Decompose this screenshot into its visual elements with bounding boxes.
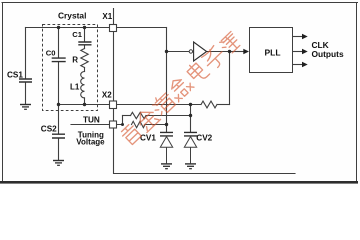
- frame top: [2, 2, 358, 4]
- wire vertical X1 internal node: [166, 28, 168, 133]
- wire top X1 net: [26, 27, 167, 29]
- pin X1: [110, 25, 117, 32]
- watermark: [120, 31, 242, 145]
- wire CS2 branch: [58, 105, 60, 134]
- arrowhead CLK out 2: [302, 49, 308, 54]
- wire L1 bottom: [84, 98, 86, 105]
- wire feedback vertical: [229, 52, 231, 105]
- arrowhead CLK out 3: [302, 62, 308, 67]
- ground CS2: [53, 160, 64, 162]
- arrowhead CLK out 1: [302, 34, 308, 39]
- wire TUN riser: [122, 116, 124, 125]
- varactor CV1 diode: [160, 137, 172, 164]
- pin X2: [110, 101, 117, 109]
- capacitor CS2: [52, 134, 65, 138]
- chip outline: [114, 9, 296, 174]
- wire R to L1: [84, 68, 86, 72]
- junction dot amp input: [165, 50, 168, 53]
- frame left: [2, 3, 4, 182]
- op-amp triangle: [194, 42, 207, 61]
- wire PLL input: [230, 51, 244, 53]
- crystal dashed box: [43, 25, 98, 111]
- svg-text:C0: C0: [46, 48, 56, 57]
- wire CS2 to ground: [58, 138, 60, 160]
- arrowhead PLL input: [243, 49, 249, 54]
- junction dot CV2 top: [189, 103, 192, 106]
- wire C1 to R: [84, 45, 86, 48]
- ground CS1: [20, 104, 31, 106]
- op-amp inverter bubble: [189, 50, 192, 53]
- frame right: [356, 3, 358, 182]
- wire C0 branch bottom: [58, 62, 60, 105]
- wire lower resistor right lead: [145, 124, 167, 126]
- svg-text:C1: C1: [72, 30, 82, 39]
- wire bottom X2 net: [59, 104, 202, 106]
- svg-text:X2: X2: [102, 90, 112, 99]
- ground CV1: [161, 163, 172, 165]
- svg-text:Crystal: Crystal: [58, 11, 86, 21]
- wire TUN stub: [71, 124, 123, 126]
- resistor R: [81, 49, 88, 68]
- wire CLK out 3: [293, 64, 303, 66]
- svg-text:L1: L1: [70, 82, 80, 91]
- junction dot top C0: [57, 26, 60, 29]
- svg-text:Outputs: Outputs: [312, 49, 344, 59]
- junction dot top C1: [83, 26, 86, 29]
- svg-text:PLL: PLL: [265, 47, 281, 57]
- svg-text:Voltage: Voltage: [76, 138, 105, 147]
- frame bottom bar: [0, 181, 358, 184]
- wire C1 top lead: [84, 28, 86, 42]
- varactor CV2 diode: [184, 137, 196, 164]
- wire upper resistor right lead: [146, 115, 191, 117]
- svg-text:CV1: CV1: [140, 134, 156, 143]
- inductor L1: [81, 72, 85, 98]
- wire vertical CV2 branch: [190, 105, 192, 133]
- svg-text:TUN: TUN: [83, 115, 100, 124]
- capacitor CS1: [19, 79, 32, 82]
- capacitor C1: [78, 42, 91, 45]
- svg-text:CV2: CV2: [196, 134, 212, 143]
- pin TUN: [110, 121, 117, 128]
- capacitor C0: [52, 58, 66, 62]
- junction dot TUN split: [121, 123, 124, 126]
- wire feedback to resistor: [217, 104, 230, 106]
- varactor CV1 plates: [160, 132, 173, 136]
- svg-text:CS2: CS2: [41, 124, 57, 133]
- wire upper resistor left lead: [123, 115, 131, 117]
- junction dot amp output: [228, 50, 231, 53]
- wire CLK out 1: [293, 36, 303, 38]
- resistor lower (TUN to CV1 node): [132, 121, 146, 127]
- resistor upper (TUN to CV2 node): [131, 112, 146, 118]
- resistor feedback: [201, 101, 217, 108]
- wire CLK out 2: [293, 51, 303, 53]
- ground CV2: [185, 163, 196, 165]
- PLL box U1: [250, 28, 293, 73]
- wire left vertical to CS1: [25, 28, 27, 79]
- junction dot CV1 resistor: [165, 123, 168, 126]
- junction dot bottom L1: [83, 103, 86, 106]
- wire CS1 to ground: [25, 83, 27, 104]
- svg-text:CS1: CS1: [7, 70, 23, 79]
- varactor CV2 plates: [184, 132, 197, 136]
- svg-text:R: R: [72, 55, 78, 64]
- junction dot bottom C0: [57, 103, 60, 106]
- wire C0 branch top: [58, 28, 60, 58]
- junction dot CV2 resistor: [189, 114, 192, 117]
- wire amp input: [167, 51, 190, 53]
- wire amp output: [207, 51, 230, 53]
- svg-text:X1: X1: [102, 12, 112, 21]
